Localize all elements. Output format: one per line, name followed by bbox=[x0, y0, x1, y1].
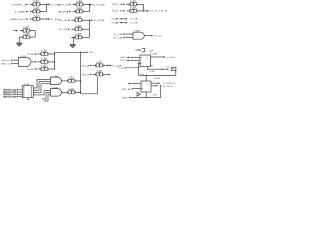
net label RD_A (input M16) bbox=[82, 64, 92, 67]
wire U10B out bbox=[62, 91, 65, 93]
net label XB_P_LOAD (output M3) bbox=[90, 3, 106, 6]
net label Q1N (output U5B) bbox=[151, 85, 175, 88]
wire output tie M5 bbox=[140, 4, 144, 11]
net label X_Q0 (output M16) bbox=[106, 64, 122, 67]
wire output tie M3 bbox=[86, 4, 90, 12]
svg-text:1 TD: 1 TD bbox=[41, 50, 48, 52]
wire U5A to J1 bbox=[148, 68, 169, 70]
wire V2 vertical bbox=[96, 77, 98, 94]
svg-text:P_CO: P_CO bbox=[155, 36, 163, 38]
svg-text:X_D1B: X_D1B bbox=[94, 20, 106, 22]
svg-text:CNT_EN: CNT_EN bbox=[121, 89, 132, 91]
svg-text:Q_N<1>: Q_N<1> bbox=[163, 85, 175, 88]
svg-text:1 T8: 1 T8 bbox=[75, 25, 81, 27]
transistor cell M32 bbox=[73, 8, 87, 14]
svg-text:IN<3>: IN<3> bbox=[4, 96, 14, 99]
svg-text:SET_N: SET_N bbox=[58, 4, 69, 6]
transistor cell M16 bbox=[93, 62, 107, 68]
svg-text:P_CLK: P_CLK bbox=[119, 68, 126, 70]
node B3 junction and label bbox=[85, 19, 105, 22]
wire to ground M9 bbox=[18, 37, 20, 43]
net label CE (input U5B) bbox=[121, 88, 140, 91]
net label DATA_IN (input M7) bbox=[10, 18, 28, 21]
pin U5A qn tick bbox=[151, 65, 153, 67]
and gate U10A bbox=[51, 75, 62, 85]
net label W_EN2 (input M15) bbox=[27, 68, 38, 71]
svg-text:1 TJ: 1 TJ bbox=[68, 77, 74, 79]
svg-text:RD_B: RD_B bbox=[82, 74, 90, 76]
svg-text:U5B: U5B bbox=[154, 78, 160, 80]
net label P_CO (output U6A) bbox=[144, 35, 162, 38]
net label CLK_B (input M52) bbox=[112, 10, 125, 13]
svg-text:DATA_IN<0>: DATA_IN<0> bbox=[10, 18, 27, 21]
transistor cell M13 bbox=[38, 50, 52, 56]
svg-text:2: 2 bbox=[29, 94, 30, 96]
transistor cell M12 bbox=[30, 8, 44, 14]
wire U5B clr loop bbox=[138, 86, 161, 98]
svg-text:CLK_A: CLK_A bbox=[112, 3, 124, 6]
svg-text:D0: D0 bbox=[121, 57, 126, 59]
svg-text:XB_P_LOAD: XB_P_LOAD bbox=[92, 3, 106, 6]
svg-text:1 T8: 1 T8 bbox=[75, 34, 81, 36]
transistor cell M8 bbox=[72, 16, 86, 22]
transistor cell M15 bbox=[38, 65, 52, 71]
svg-text:1 T8: 1 T8 bbox=[75, 16, 81, 18]
svg-text:Q_OUT<1>: Q_OUT<1> bbox=[163, 82, 178, 85]
svg-text:1 T7: 1 T7 bbox=[33, 15, 39, 17]
ground (B stack) bbox=[70, 44, 76, 47]
svg-text:P_CIB: P_CIB bbox=[114, 37, 123, 39]
svg-text:X_PRESET_N: X_PRESET_N bbox=[11, 4, 26, 6]
svg-text:1: 1 bbox=[23, 89, 24, 91]
transistor cell M17 bbox=[93, 71, 107, 77]
net label Q_OUT (output U5A) bbox=[151, 56, 177, 59]
net label CLK_A (input M51) bbox=[112, 3, 125, 6]
transistor cell M52 bbox=[127, 7, 141, 13]
net stub CARRY_A bbox=[112, 18, 139, 21]
wire U10A out bbox=[62, 80, 65, 82]
wire bottom horizontal bbox=[81, 93, 98, 95]
svg-text:D1: D1 bbox=[121, 60, 126, 62]
svg-text:SEL<0>: SEL<0> bbox=[2, 59, 12, 62]
svg-text:U10B: U10B bbox=[52, 88, 60, 90]
net label D2 (input M8b) bbox=[59, 28, 70, 31]
wire V1 vertical bbox=[80, 52, 82, 94]
transistor cell M7 bbox=[30, 15, 44, 21]
wire M18 to V1 bbox=[78, 80, 81, 81]
svg-text:1 T4: 1 T4 bbox=[76, 8, 82, 10]
wire U10B inputs bbox=[42, 91, 51, 101]
svg-text:LOAD: LOAD bbox=[15, 10, 27, 13]
wire to ground B stack bbox=[72, 38, 74, 45]
net label X_D0 (output M7) bbox=[43, 18, 61, 21]
ic box U1 bbox=[22, 83, 44, 99]
svg-text:1 TG: 1 TG bbox=[96, 62, 103, 64]
wire U5A clrn pin bbox=[147, 67, 155, 74]
svg-text:W_EN0: W_EN0 bbox=[28, 54, 35, 56]
wire U2B out bbox=[31, 61, 37, 63]
net label W_EN0 (input M13) bbox=[28, 53, 38, 56]
svg-text:U6A: U6A bbox=[135, 30, 141, 33]
svg-text:1 T9: 1 T9 bbox=[23, 27, 29, 29]
transistor cell M31 bbox=[73, 1, 87, 7]
wire M17 out bbox=[106, 74, 110, 76]
svg-text:D2_IN: D2_IN bbox=[59, 29, 68, 31]
net input arrow (M9) bbox=[14, 30, 18, 32]
transistor cell M11 bbox=[30, 1, 44, 7]
svg-text:CLRN: CLRN bbox=[150, 71, 156, 73]
svg-text:1 T3: 1 T3 bbox=[76, 1, 82, 3]
and gate U2B bbox=[19, 56, 32, 67]
net label W tap bbox=[81, 51, 94, 54]
wire tie M9 bbox=[33, 31, 35, 37]
net label Q1 (output U5B) bbox=[151, 82, 177, 85]
transistor cell M9b bbox=[20, 32, 34, 39]
svg-text:J1: J1 bbox=[166, 66, 170, 68]
svg-text:1 T2: 1 T2 bbox=[33, 8, 39, 10]
svg-text:XC_P_LD_N: XC_P_LD_N bbox=[149, 11, 168, 13]
svg-text:1 T5: 1 T5 bbox=[130, 1, 136, 3]
connector J1 bbox=[166, 66, 176, 70]
net input arrow U5B d bbox=[128, 83, 140, 85]
wire tie B stack bbox=[85, 20, 90, 37]
net tag CK bbox=[140, 74, 145, 76]
svg-text:U2B: U2B bbox=[21, 56, 27, 58]
svg-text:W_EN2: W_EN2 bbox=[27, 69, 35, 71]
net label P_CIA (input U6A) bbox=[114, 33, 133, 36]
net label RESET bbox=[122, 97, 138, 100]
net label X_P_LOAD (output M1) bbox=[47, 3, 61, 6]
connector J2 bbox=[136, 48, 155, 52]
transistor cell M8c bbox=[72, 34, 86, 40]
net label RD_B (input M17) bbox=[82, 74, 92, 77]
net label SEL1 (input U2B) bbox=[2, 62, 19, 65]
transistor cell M51 bbox=[127, 1, 141, 7]
svg-text:1 T1: 1 T1 bbox=[33, 1, 39, 3]
svg-text:+W: +W bbox=[89, 52, 94, 54]
svg-text:SEL<1>: SEL<1> bbox=[2, 62, 12, 65]
svg-text:RESET: RESET bbox=[122, 97, 130, 99]
svg-text:P_CIB: P_CIB bbox=[131, 23, 139, 25]
net label SEL0 (input U2B) bbox=[2, 59, 19, 62]
net label X_PRESET_N (input M11) bbox=[11, 4, 28, 7]
and gate U6A bbox=[133, 30, 144, 40]
net label P_CIB (input U6A) bbox=[114, 37, 133, 40]
net labels IN0-IN3 (bundle) bbox=[3, 89, 22, 99]
and gate U10B bbox=[51, 88, 62, 97]
wire M19 to V1 bbox=[78, 92, 81, 93]
svg-text:P_CIA: P_CIA bbox=[114, 33, 123, 36]
wire output tie M1 bbox=[43, 4, 47, 12]
svg-text:Q_OUT<0>: Q_OUT<0> bbox=[166, 56, 176, 59]
svg-text:CLK_B: CLK_B bbox=[112, 11, 124, 13]
svg-text:1 T6: 1 T6 bbox=[130, 7, 136, 9]
wire bus (stack outputs) bbox=[51, 52, 55, 69]
wire risers from U1 bbox=[37, 80, 51, 93]
svg-text:1 TH: 1 TH bbox=[96, 71, 103, 73]
transistor cell M9a bbox=[20, 27, 34, 33]
wire J1 loop bbox=[138, 63, 176, 76]
svg-text:U10A: U10A bbox=[52, 75, 60, 78]
svg-text:P_CIA: P_CIA bbox=[131, 18, 139, 21]
ground (M9) bbox=[16, 43, 22, 46]
net label LOAD (input M12) bbox=[15, 10, 28, 13]
transistor cell M18 bbox=[65, 77, 79, 83]
flip-flop U5A bbox=[139, 52, 158, 66]
buffer clr glyph bbox=[137, 92, 140, 96]
flip-flop U5B bbox=[140, 78, 161, 92]
net stub CARRY_B bbox=[112, 22, 139, 25]
net label D1 (input M8) bbox=[59, 19, 70, 22]
transistor cell M14 bbox=[38, 58, 52, 64]
transistor cell M8b bbox=[72, 25, 86, 31]
net input arrows U5A bbox=[121, 56, 139, 62]
svg-text:U5A: U5A bbox=[152, 52, 158, 55]
svg-text:D1_IN: D1_IN bbox=[59, 20, 68, 22]
transistor cell M19 bbox=[65, 89, 79, 95]
svg-text:RD_A: RD_A bbox=[82, 64, 90, 67]
wire bus top horizontal bbox=[55, 52, 82, 53]
net label EN (input M32) bbox=[58, 11, 71, 14]
wire to U5B preset bbox=[145, 75, 147, 81]
net label P_CLK bbox=[119, 67, 140, 70]
net label SET_N (input M31) bbox=[58, 4, 71, 7]
net label XC_P_LD_N (output M5) bbox=[144, 10, 168, 13]
